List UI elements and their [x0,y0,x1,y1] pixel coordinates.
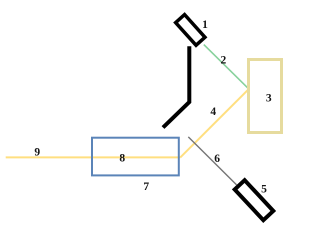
svg-text:9: 9 [34,146,40,158]
beam 2 (green diagonal beam) [204,45,248,89]
svg-text:8: 8 [119,152,125,164]
svg-text:1: 1 [202,19,208,31]
beam 6 (gray diagonal beam to component 5) [188,137,236,185]
mirror (thick black bent bar) [163,46,189,127]
component 7/8 (blue rectangle) [92,138,179,176]
svg-text:7: 7 [143,181,149,193]
component 1 (rotated rectangle, top) [176,15,205,46]
svg-text:5: 5 [261,184,267,196]
svg-text:2: 2 [221,55,227,67]
svg-text:3: 3 [266,93,272,105]
component 5 (rotated rectangle, bottom right) [235,180,274,220]
component 3 (beige rectangle) [249,60,282,133]
beam 4 (yellow diagonal beam to component 3) [180,90,248,158]
svg-text:4: 4 [210,106,216,118]
svg-text:6: 6 [214,153,220,165]
beam 9 (yellow horizontal input beam) [6,156,181,158]
